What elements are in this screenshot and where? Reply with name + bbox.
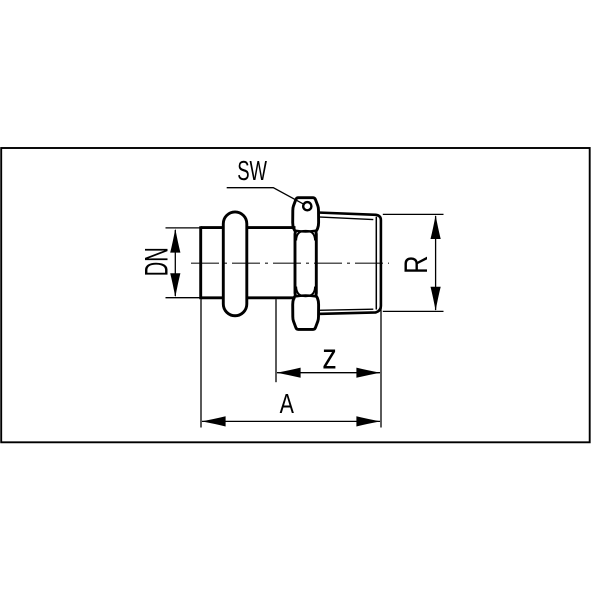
male thread outline (crest, end face) [318,213,381,314]
A dimension line [202,420,380,422]
svg-text:DN: DN [138,247,174,276]
R arrow up [431,215,441,239]
press bead bulge [223,212,247,316]
press socket cylinder left end face [199,226,202,299]
hex nut upper chamfer hooks [296,231,315,241]
svg-text:R: R [398,256,434,274]
A arrow left [202,416,226,426]
thread root line bottom [318,309,373,310]
svg-text:SW: SW [237,155,267,186]
R top extension line [383,213,444,215]
SW leader line [227,188,304,205]
R arrow down [431,287,441,311]
DN arrow down [170,273,180,297]
centerline (dash-dot axis) [191,262,389,264]
z arrow right [356,368,380,378]
R bottom extension line [383,310,444,312]
hex nut upper chamfer line [295,229,316,232]
z arrow left [277,368,301,378]
z left extension line [275,299,277,382]
svg-text:A: A [280,388,295,419]
SW reference circle on hex corner [303,202,311,210]
thread root line top [318,217,373,220]
press socket cylinder top edge [201,226,296,229]
thread chamfer start line [375,217,377,310]
DN top extension line [166,227,201,229]
press socket cylinder bottom edge [201,296,296,299]
z and A shared right extension line [380,308,382,428]
DN bottom extension line [166,297,201,299]
DN arrow up [170,229,180,253]
drawing frame border [1,148,590,442]
hex nut lower chamfer hooks [296,287,315,297]
DN dimension line [174,230,176,296]
hex nut lower chamfer line [295,294,316,297]
R dimension line [435,216,437,310]
A arrow right [356,416,380,426]
hex nut silhouette [293,198,319,330]
svg-text:z: z [322,336,337,377]
z dimension line [277,372,380,374]
A left extension line [200,299,202,427]
